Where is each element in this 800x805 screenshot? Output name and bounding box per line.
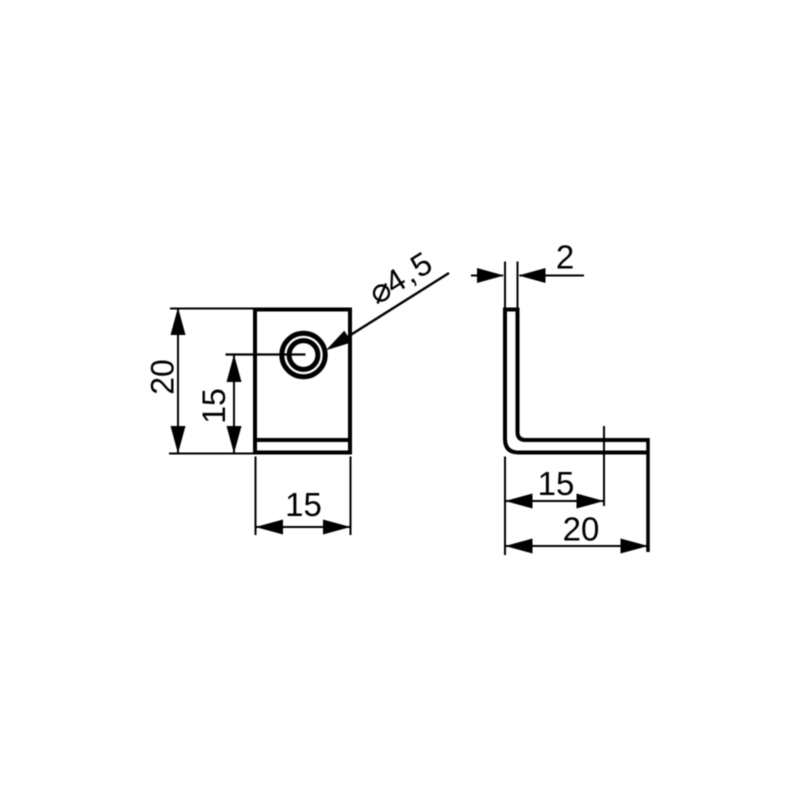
- svg-text:15: 15: [285, 486, 322, 523]
- diameter symbol: [374, 284, 389, 304]
- dim 2: right arrowhead: [519, 268, 546, 283]
- dim 20 left: top extension line: [170, 308, 253, 310]
- dim 2: right leader with arrow: [520, 275, 585, 277]
- dim 15 left: dimension line: [233, 355, 235, 454]
- dim 20 left: dimension line: [177, 308, 179, 454]
- dim 15 side view: middle extension line: [603, 426, 605, 506]
- dim 15 side view: left extension line: [504, 457, 506, 556]
- dim 15 bottom of front view: dimension line: [256, 526, 351, 528]
- hole center line: [226, 353, 306, 355]
- side view L-profile inner contour: [518, 310, 649, 441]
- svg-text:20: 20: [563, 511, 600, 548]
- svg-text:15: 15: [538, 465, 575, 502]
- dim 15 side view: dimension line: [505, 500, 604, 502]
- dim 15 side view: right arrowhead: [577, 494, 605, 509]
- leader arrowhead: [326, 331, 352, 351]
- dim 20 left: bottom extension line: [169, 453, 253, 455]
- dim 15 left: top arrowhead: [227, 355, 242, 383]
- dim 20 left: top arrowhead: [171, 308, 186, 336]
- hole outer circle: [282, 333, 325, 376]
- svg-text:20: 20: [145, 359, 181, 395]
- hole inner circle: [289, 341, 318, 370]
- dim 15 side view: left arrowhead: [505, 494, 533, 509]
- leader line for hole diameter: [337, 273, 449, 344]
- dim 15 bottom of front view: left extension line: [255, 457, 257, 536]
- dim 20 side view: right arrowhead: [621, 539, 649, 554]
- dim 2: left arrowhead: [477, 268, 504, 283]
- dim 15 bottom of front view: right arrowhead: [323, 520, 351, 535]
- dim 2: right extension line: [517, 262, 519, 309]
- dim 20 side view: left arrowhead: [505, 539, 533, 554]
- dim 20 side view: dimension line: [505, 545, 648, 547]
- front view plate outline: [255, 310, 350, 453]
- svg-text:2: 2: [556, 239, 574, 276]
- bend line: [253, 438, 352, 442]
- dim 15 left: bottom arrowhead: [227, 426, 242, 454]
- dim 15 bottom of front view: left arrowhead: [256, 520, 284, 535]
- side view L-profile right end cap and extension: [646, 438, 650, 552]
- dim 20 left: bottom arrowhead: [171, 426, 186, 454]
- dim 15 bottom of front view: right extension line: [350, 457, 352, 536]
- dim 2: left extension line: [504, 262, 506, 309]
- side view L-profile top end cap: [503, 308, 520, 312]
- dim 2: left leader with arrow: [471, 275, 503, 277]
- svg-text:15: 15: [196, 388, 232, 424]
- side view L-profile outer contour: [505, 310, 648, 453]
